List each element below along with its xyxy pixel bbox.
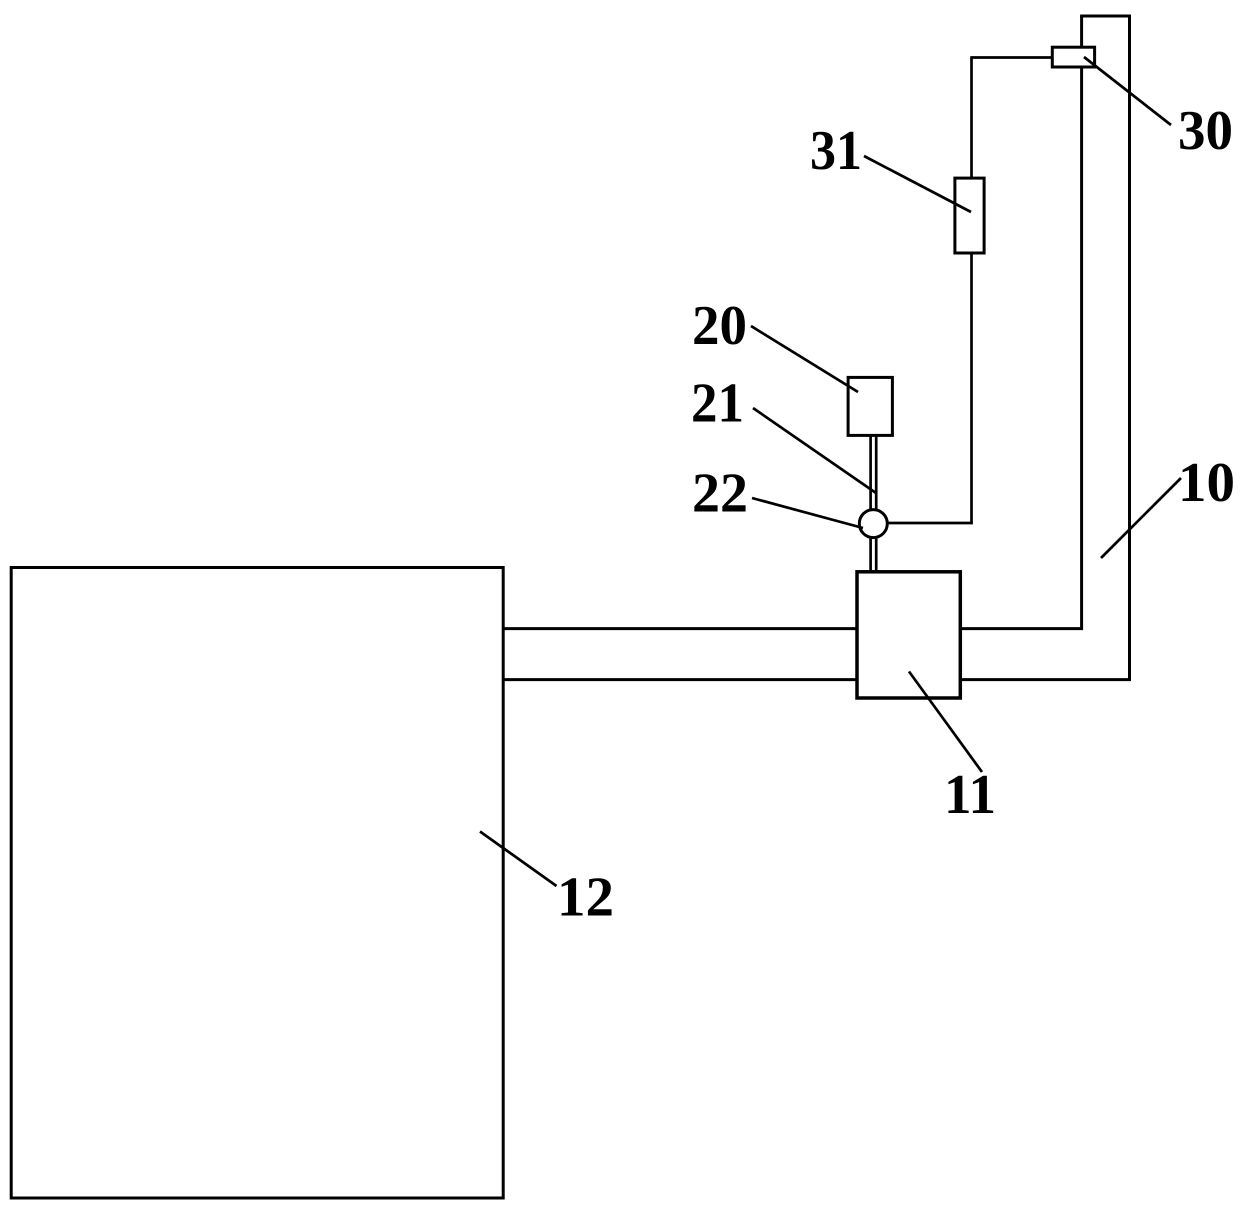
svg-text:31: 31 bbox=[810, 120, 862, 182]
svg-text:11: 11 bbox=[944, 764, 996, 826]
svg-text:21: 21 bbox=[691, 373, 744, 435]
svg-text:20: 20 bbox=[692, 295, 747, 357]
svg-text:12: 12 bbox=[557, 867, 614, 929]
svg-text:10: 10 bbox=[1178, 452, 1235, 514]
svg-text:30: 30 bbox=[1178, 100, 1233, 162]
svg-text:22: 22 bbox=[692, 463, 748, 525]
